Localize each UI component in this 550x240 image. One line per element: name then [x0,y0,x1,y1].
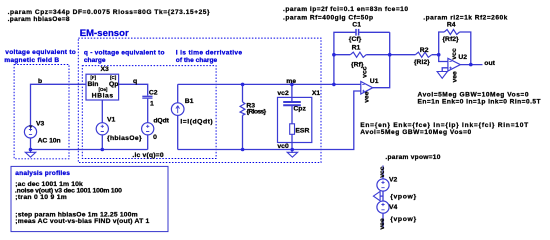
svg-text:vc2: vc2 [277,90,289,97]
svg-text:{hbiasOe}: {hbiasOe} [107,135,142,142]
svg-text:R2: R2 [420,47,429,54]
svg-text:{Rloss}: {Rloss} [246,109,266,116]
svg-text:R4: R4 [447,21,456,28]
svg-text:vee: vee [379,218,386,230]
svg-text:{Ri2}: {Ri2} [414,59,430,66]
svg-text:me: me [286,78,296,85]
svg-text:{vpow}: {vpow} [390,216,416,223]
svg-text:b: b [38,78,42,85]
svg-text:V3: V3 [36,121,45,128]
svg-text:of the charge: of the charge [176,57,218,64]
svg-text:{Rf2}: {Rf2} [442,36,459,43]
svg-text:R1: R1 [352,45,361,52]
svg-text:.param ri2=1k Rf2=260k: .param ri2=1k Rf2=260k [423,15,507,22]
svg-text:[Oe]: [Oe] [99,87,108,92]
svg-text:X3: X3 [101,66,110,73]
svg-text:.param Rf=400gig Cf=50p: .param Rf=400gig Cf=50p [283,15,373,22]
svg-text:1: 1 [150,100,154,107]
svg-text:analysis profiles: analysis profiles [15,170,70,177]
svg-text:q - voltage equivalent to: q - voltage equivalent to [84,50,165,57]
svg-text:Qp: Qp [109,81,118,88]
svg-text:En=1n Enk=0 In=1p Ink=0 Rin=0.: En=1n Enk=0 In=1p Ink=0 Rin=0.5T [418,98,541,105]
svg-text:U1: U1 [370,78,379,85]
svg-text:.param ip=2f fci=0.1 en=83n fc: .param ip=2f fci=0.1 en=83n fce=10 [283,6,408,13]
svg-text:U2: U2 [458,54,467,61]
svg-text:{Cf}: {Cf} [349,36,362,43]
svg-text:AC 10n: AC 10n [38,138,61,145]
svg-text:V2: V2 [389,176,398,183]
svg-text:X1: X1 [312,90,321,97]
svg-text:.param vpow=10: .param vpow=10 [385,154,440,161]
svg-text:vcc: vcc [362,66,369,78]
svg-text:vc0: vc0 [277,143,289,150]
svg-text:.ic v(q)=0: .ic v(q)=0 [132,152,163,159]
svg-text:HBias: HBias [92,92,114,99]
svg-text:dQdt: dQdt [153,118,169,125]
svg-text:[F]: [F] [90,75,96,80]
svg-text:Cpz: Cpz [293,106,306,113]
svg-text:V1: V1 [107,117,116,124]
svg-text:;tran 0 10 9 1m: ;tran 0 10 9 1m [15,194,67,201]
svg-text:vcc: vcc [451,48,458,60]
svg-text:0: 0 [153,134,157,141]
svg-text:EM-sensor: EM-sensor [80,28,129,39]
svg-text:vcc: vcc [379,166,386,178]
svg-text:;meas AC vout-vs-bias FIND v(o: ;meas AC vout-vs-bias FIND v(out) AT 1 [15,218,149,225]
svg-text:Avol=5Meg GBW=10Meg Vos=0: Avol=5Meg GBW=10Meg Vos=0 [418,91,529,98]
svg-text:charge: charge [84,57,106,64]
svg-text:magnetic field B: magnetic field B [4,57,59,64]
svg-text:Avol=5Meg GBW=10Meg Vos=0: Avol=5Meg GBW=10Meg Vos=0 [360,129,471,136]
svg-text:[C]: [C] [110,75,117,80]
svg-text:C1: C1 [352,22,361,29]
svg-text:voltage equivalent to: voltage equivalent to [5,49,76,56]
svg-text:q: q [133,78,137,85]
svg-text:{vpow}: {vpow} [390,194,416,201]
svg-text:I is time derrivative: I is time derrivative [176,50,243,57]
svg-text:vee: vee [364,91,371,103]
svg-text:Bin: Bin [88,81,99,88]
svg-text:ESR: ESR [295,128,309,135]
svg-text:out: out [484,60,495,67]
svg-text:C2: C2 [149,90,158,97]
svg-text:B1: B1 [185,98,194,105]
svg-text:I=I(dQdt): I=I(dQdt) [180,118,212,125]
svg-text:V4: V4 [389,204,398,211]
svg-text:vee: vee [451,71,458,83]
svg-text:.param hbiasOe=8: .param hbiasOe=8 [8,16,70,23]
